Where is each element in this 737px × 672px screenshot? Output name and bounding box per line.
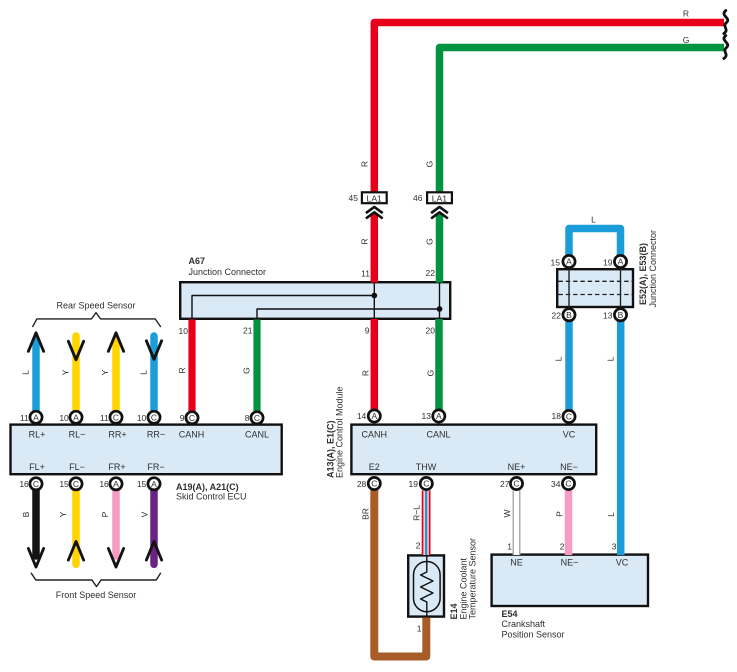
svg-text:1: 1 <box>417 624 422 634</box>
E52 internal line right <box>620 269 622 308</box>
svg-text:11: 11 <box>20 413 29 423</box>
arrow FR- in <box>146 542 161 561</box>
label P wire <box>555 511 565 517</box>
arrow RR+ out <box>108 333 123 352</box>
svg-text:19: 19 <box>603 258 613 268</box>
svg-text:R: R <box>361 370 371 376</box>
svg-text:45: 45 <box>349 193 359 203</box>
svg-text:LA1: LA1 <box>432 193 448 203</box>
svg-text:CANH: CANH <box>179 429 205 439</box>
arrow RL- in <box>68 341 83 360</box>
label P wire FR+ <box>100 511 110 517</box>
svg-text:G: G <box>683 35 690 45</box>
label R top <box>683 9 689 19</box>
wire G CANL top run <box>440 48 725 192</box>
label skid control ECU <box>176 482 247 502</box>
pin circle ECU 10A <box>70 411 82 423</box>
E52 dashed bus lower <box>559 294 633 296</box>
svg-text:LA1: LA1 <box>367 193 383 203</box>
svg-text:THW: THW <box>416 462 437 472</box>
wire L rear-left speed sensor RL+ <box>32 340 40 412</box>
connector LA1 pin45 box <box>362 192 387 203</box>
svg-text:A19(A), A21(C): A19(A), A21(C) <box>176 482 239 492</box>
pin circle ECU 16C <box>30 478 42 490</box>
svg-text:2: 2 <box>560 542 565 552</box>
junction dot CANH <box>371 293 377 299</box>
svg-text:R: R <box>360 238 370 244</box>
A67 internal line pin22-pin20 <box>439 282 441 320</box>
wire B front-left speed sensor FL+ <box>32 490 40 556</box>
svg-text:C: C <box>254 413 260 423</box>
label R wire upper <box>360 161 370 167</box>
label V wire FR- <box>140 511 150 517</box>
junction connector A67 box <box>180 282 450 319</box>
pin circle ECU 11C <box>110 411 122 423</box>
svg-text:A: A <box>566 257 572 267</box>
svg-text:G: G <box>426 370 436 377</box>
pin 22 E52 <box>552 311 562 321</box>
svg-text:CANH: CANH <box>362 429 388 439</box>
label Y wire RR+ <box>100 369 110 375</box>
label R wire lower <box>361 370 371 376</box>
svg-text:A67: A67 <box>189 256 206 266</box>
pin circle ECU 16A <box>110 478 122 490</box>
svg-text:Junction Connector: Junction Connector <box>189 267 267 277</box>
wire G CANL A67 to ECM pin13 <box>435 319 443 410</box>
svg-text:L: L <box>139 370 149 375</box>
pin circle E52 19A <box>614 255 626 267</box>
wire R CANH top run <box>374 23 724 192</box>
svg-text:R: R <box>177 367 187 373</box>
wire BR ECM E2 to E14 pin1 <box>374 490 426 657</box>
svg-text:C: C <box>423 479 429 489</box>
svg-text:Engine Control Module: Engine Control Module <box>334 386 344 478</box>
svg-text:FR+: FR+ <box>108 462 125 472</box>
svg-text:G: G <box>425 161 435 168</box>
svg-text:E14: E14 <box>449 603 459 619</box>
label B wire FL+ <box>21 511 31 517</box>
svg-text:34: 34 <box>551 479 561 489</box>
wire P ECM NE- to E54 pin2 <box>565 491 573 556</box>
brace rear speed sensor <box>33 313 161 327</box>
svg-text:E2: E2 <box>369 462 380 472</box>
pin circle ECM 27C <box>510 477 522 489</box>
wire R CANH LA1 to A67 <box>371 214 379 283</box>
label L wire lower <box>606 512 616 517</box>
pin circle ECU 9C <box>186 412 198 424</box>
labels ECU row1 <box>29 429 269 439</box>
svg-text:16: 16 <box>99 479 109 489</box>
wire L E52 top loop <box>569 229 621 256</box>
svg-text:9: 9 <box>365 326 370 336</box>
labels ECM row2 <box>369 462 578 472</box>
svg-text:19: 19 <box>409 479 419 489</box>
svg-text:15: 15 <box>137 479 147 489</box>
svg-text:BR: BR <box>361 508 371 520</box>
svg-text:46: 46 <box>413 193 423 203</box>
svg-text:13: 13 <box>422 411 432 421</box>
pins ECU bottom <box>19 479 146 489</box>
connector LA1 pin46 box <box>427 192 452 203</box>
svg-text:28: 28 <box>357 479 367 489</box>
svg-text:10: 10 <box>59 413 69 423</box>
svg-text:C: C <box>371 479 377 489</box>
svg-text:A: A <box>73 412 79 422</box>
wire Y rear-right speed sensor RR+ <box>112 340 120 412</box>
svg-text:RR+: RR+ <box>108 429 126 439</box>
pin circle E52 13B <box>614 309 626 321</box>
label front speed sensor <box>56 590 137 600</box>
pins ECU top <box>20 413 250 423</box>
label L wire RL+ <box>21 370 31 375</box>
pin circle ECM 19C <box>420 477 432 489</box>
pins E54 top <box>507 542 617 552</box>
svg-text:NE−: NE− <box>561 558 579 568</box>
svg-text:P: P <box>100 511 110 517</box>
arrow RL+ out <box>28 333 43 352</box>
label R-L wire <box>411 505 421 521</box>
svg-text:A: A <box>436 411 442 421</box>
label L E52 right <box>606 356 616 361</box>
pin 19 E52 <box>603 258 613 268</box>
label Y wire RL- <box>61 369 71 375</box>
pin 1 E14 <box>417 624 422 634</box>
svg-text:Y: Y <box>100 369 110 375</box>
wire L E52 pin22 to ECM VC pin18 <box>565 322 573 411</box>
labels ECU row2 <box>29 462 165 472</box>
pin circle ECU 15C <box>70 478 82 490</box>
pin 2 E14 <box>416 541 421 551</box>
svg-text:CANL: CANL <box>426 429 450 439</box>
pin 22 A67 <box>426 268 436 278</box>
break symbol R wire <box>724 11 728 34</box>
wire Y rear-left speed sensor RL- <box>72 336 80 412</box>
svg-text:C: C <box>566 412 572 422</box>
arrow RR- in <box>146 341 161 360</box>
pins ECM bottom <box>357 479 561 489</box>
wire R-L ECM THW to E14 pin2 <box>424 491 428 556</box>
label G wire lower <box>426 370 436 377</box>
pin 10 A67 <box>179 326 189 336</box>
svg-text:21: 21 <box>243 326 253 336</box>
svg-text:FL+: FL+ <box>29 462 45 472</box>
wire L E52 pin13 to E54 VC <box>617 322 625 556</box>
svg-text:R: R <box>360 161 370 167</box>
A67 internal bus pin21 <box>257 309 440 320</box>
svg-text:C: C <box>151 412 157 422</box>
E14 thermistor element <box>421 555 433 617</box>
arrow FL+ out <box>28 549 43 568</box>
A67 internal bus pin10 <box>192 296 374 320</box>
label A67 <box>189 256 267 277</box>
label G top <box>683 35 690 45</box>
wire W ECM NE+ to E54 pin1 <box>513 491 520 556</box>
svg-text:3: 3 <box>612 542 617 552</box>
pin circle ECU 10C <box>148 411 160 423</box>
svg-text:C: C <box>189 413 195 423</box>
arrow FL- in <box>68 542 83 561</box>
svg-text:Temperature Sensor: Temperature Sensor <box>467 538 477 620</box>
pin circle ECU 8C <box>251 412 263 424</box>
wire G CANL LA1 to A67 <box>436 214 444 283</box>
break symbol G wire <box>724 36 728 59</box>
svg-text:A: A <box>33 412 39 422</box>
svg-text:Y: Y <box>61 369 71 375</box>
svg-text:C: C <box>513 479 519 489</box>
svg-text:Skid Control ECU: Skid Control ECU <box>176 492 247 502</box>
svg-text:Junction Connector: Junction Connector <box>648 230 658 308</box>
label L E52 left <box>554 356 564 361</box>
svg-text:Front Speed Sensor: Front Speed Sensor <box>56 590 137 600</box>
svg-text:27: 27 <box>500 479 510 489</box>
coolant temp sensor E14 box <box>408 555 444 616</box>
label G stub <box>242 367 252 374</box>
wire R CANH A67 to ECM pin14 <box>371 319 379 410</box>
svg-text:G: G <box>425 238 435 245</box>
label R stub <box>177 367 187 373</box>
svg-text:L: L <box>554 356 564 361</box>
svg-text:9: 9 <box>180 413 185 423</box>
arrow FR+ out <box>108 549 123 568</box>
pin 15 E52 <box>551 258 561 268</box>
svg-text:G: G <box>242 367 252 374</box>
pin 9 A67 <box>365 326 370 336</box>
svg-text:R−L: R−L <box>411 505 421 521</box>
svg-text:Rear Speed Sensor: Rear Speed Sensor <box>56 301 135 311</box>
labels E54 row <box>510 558 629 568</box>
svg-text:NE−: NE− <box>560 462 578 472</box>
svg-text:22: 22 <box>552 311 562 321</box>
wire P front-right speed sensor FR+ <box>112 490 120 556</box>
svg-text:L: L <box>21 370 31 375</box>
svg-text:18: 18 <box>552 411 562 421</box>
label R wire mid <box>360 238 370 244</box>
label ECM designator <box>325 386 344 478</box>
svg-text:L: L <box>606 512 616 517</box>
svg-text:11: 11 <box>100 413 109 423</box>
A67 internal line pin11-pin9 <box>373 282 375 320</box>
pin 45 <box>349 193 359 203</box>
svg-text:2: 2 <box>416 541 421 551</box>
label E52 designator <box>638 230 658 308</box>
svg-text:RR−: RR− <box>147 429 165 439</box>
pin circle ECM 34C <box>562 477 574 489</box>
svg-text:NE: NE <box>510 558 523 568</box>
svg-text:P: P <box>555 511 565 517</box>
svg-text:20: 20 <box>426 326 436 336</box>
svg-text:NE+: NE+ <box>508 462 526 472</box>
svg-text:15: 15 <box>551 258 561 268</box>
svg-text:C: C <box>73 479 79 489</box>
label E14 designator <box>449 538 478 620</box>
svg-text:Y: Y <box>58 511 68 517</box>
svg-text:A: A <box>618 257 624 267</box>
pin circle ECM 13A <box>433 410 445 422</box>
svg-text:FR−: FR− <box>147 462 164 472</box>
pin 46 <box>413 193 423 203</box>
svg-text:E54: E54 <box>502 609 518 619</box>
connector LA1 pin46 chevrons <box>431 207 448 219</box>
svg-text:W: W <box>502 509 512 517</box>
svg-text:FL−: FL− <box>69 462 85 472</box>
pin 20 A67 <box>426 326 436 336</box>
svg-text:B: B <box>618 310 624 320</box>
svg-text:8: 8 <box>245 413 250 423</box>
label E54 designator <box>502 609 565 640</box>
svg-text:10: 10 <box>179 326 189 336</box>
pin circle ECM 14A <box>368 410 380 422</box>
label Y wire FL- <box>58 511 68 517</box>
connector LA1 pin45 chevrons <box>366 207 383 219</box>
pin circle ECM 28C <box>368 477 380 489</box>
svg-text:C: C <box>113 412 119 422</box>
svg-text:16: 16 <box>19 479 29 489</box>
wire L rear-right speed sensor RR- <box>150 336 158 412</box>
E14 thermistor capsule <box>414 562 441 612</box>
junction dot CANL <box>437 306 443 312</box>
pin 11 A67 <box>361 268 370 278</box>
svg-text:V: V <box>140 511 150 517</box>
svg-text:22: 22 <box>426 268 436 278</box>
svg-text:L: L <box>606 356 616 361</box>
svg-text:A: A <box>151 479 157 489</box>
pin circle E52 22B <box>563 309 575 321</box>
skid control ECU A19/A21 box <box>11 425 282 475</box>
labels ECM row1 <box>362 429 576 439</box>
engine control module A13/E1 box <box>351 425 596 475</box>
svg-text:Crankshaft: Crankshaft <box>502 619 546 629</box>
label BR wire <box>361 508 371 520</box>
svg-text:A: A <box>371 411 377 421</box>
svg-text:15: 15 <box>59 479 69 489</box>
wire G CANL stub A67 pin21 to ECU pin8 <box>253 320 260 412</box>
pin circle E52 15A <box>563 255 575 267</box>
svg-text:RL−: RL− <box>69 429 86 439</box>
pin circle ECM 18C <box>563 410 575 422</box>
pins ECM top <box>357 411 561 421</box>
svg-text:R: R <box>683 9 689 19</box>
svg-text:C: C <box>33 479 39 489</box>
svg-text:A: A <box>113 479 119 489</box>
svg-text:E52(A), E53(B): E52(A), E53(B) <box>638 243 648 305</box>
svg-text:10: 10 <box>137 413 147 423</box>
label rear speed sensor <box>56 301 135 311</box>
svg-text:1: 1 <box>507 542 512 552</box>
label L wire RR- <box>139 370 149 375</box>
svg-text:L: L <box>591 214 596 224</box>
junction connector E52/E53 box <box>557 269 633 307</box>
svg-text:VC: VC <box>563 429 576 439</box>
crankshaft position sensor E54 box <box>492 555 648 606</box>
pin circle ECU 15A <box>148 478 160 490</box>
E52 dashed bus upper <box>559 280 633 282</box>
label W wire <box>502 509 512 517</box>
svg-text:14: 14 <box>357 411 367 421</box>
svg-text:VC: VC <box>616 558 629 568</box>
svg-text:13: 13 <box>603 311 613 321</box>
svg-text:B: B <box>21 511 31 517</box>
svg-text:11: 11 <box>361 268 370 278</box>
E52 internal line left <box>568 269 570 308</box>
pin 21 A67 <box>243 326 253 336</box>
label L E52 loop <box>591 214 596 224</box>
svg-text:B: B <box>566 310 572 320</box>
brace front speed sensor <box>31 573 161 587</box>
label G wire mid <box>425 238 435 245</box>
wire R CANH stub A67 pin10 to ECU pin9 <box>188 320 195 412</box>
svg-text:Position Sensor: Position Sensor <box>502 630 565 640</box>
label G wire upper <box>425 161 435 168</box>
svg-text:CANL: CANL <box>245 429 269 439</box>
svg-text:RL+: RL+ <box>29 429 46 439</box>
svg-text:C: C <box>565 479 571 489</box>
wire Y front-left speed sensor FL- <box>72 490 80 564</box>
wire V front-right speed sensor FR- <box>150 490 158 564</box>
pin 13 E52 <box>603 311 613 321</box>
pin circle ECU 11A <box>30 411 42 423</box>
